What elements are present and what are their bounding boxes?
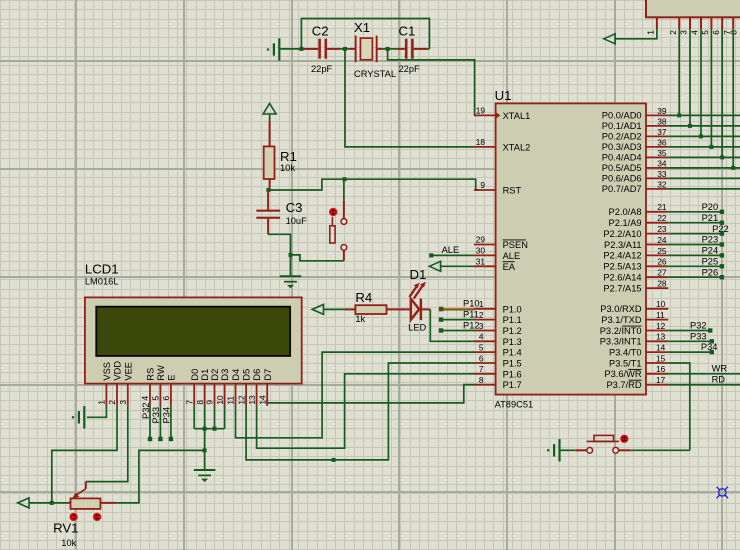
- svg-text:29: 29: [476, 235, 486, 245]
- svg-text:6: 6: [161, 396, 171, 401]
- svg-text:P11: P11: [463, 309, 479, 319]
- svg-text:P1.7: P1.7: [503, 380, 522, 390]
- svg-text:P1.5: P1.5: [503, 359, 522, 369]
- svg-text:P0.7/AD7: P0.7/AD7: [602, 184, 642, 194]
- svg-text:P10: P10: [463, 299, 480, 309]
- svg-text:28: 28: [657, 279, 667, 289]
- svg-text:P2.3/A11: P2.3/A11: [604, 240, 642, 250]
- svg-text:P0.5/AD5: P0.5/AD5: [602, 163, 642, 173]
- svg-text:P0.0/AD0: P0.0/AD0: [602, 111, 642, 121]
- svg-text:8: 8: [195, 400, 205, 405]
- svg-text:P1.6: P1.6: [503, 369, 522, 379]
- svg-text:P3.5/T1: P3.5/T1: [609, 358, 642, 368]
- svg-text:U1: U1: [495, 88, 512, 103]
- svg-text:R1: R1: [280, 149, 297, 164]
- svg-text:ALE: ALE: [503, 251, 521, 261]
- svg-text:10k: 10k: [280, 163, 295, 173]
- svg-text:P24: P24: [702, 246, 719, 256]
- svg-text:1: 1: [479, 299, 484, 309]
- svg-text:16: 16: [656, 364, 666, 374]
- svg-text:P1.3: P1.3: [503, 337, 522, 347]
- svg-text:14: 14: [656, 343, 666, 353]
- svg-text:6: 6: [479, 353, 484, 363]
- svg-text:32: 32: [657, 179, 667, 189]
- svg-text:R4: R4: [355, 290, 372, 305]
- svg-text:D1: D1: [200, 369, 210, 381]
- svg-text:RD: RD: [712, 374, 726, 384]
- svg-text:CRYSTAL: CRYSTAL: [354, 69, 396, 79]
- svg-text:P3.6/WR: P3.6/WR: [604, 369, 641, 379]
- svg-text:P22: P22: [712, 224, 729, 234]
- svg-text:27: 27: [657, 268, 667, 278]
- svg-text:LCD1: LCD1: [85, 261, 119, 276]
- svg-text:36: 36: [657, 137, 667, 147]
- svg-text:LM016L: LM016L: [85, 276, 119, 286]
- svg-text:22: 22: [657, 213, 667, 223]
- svg-text:22pF: 22pF: [399, 64, 421, 74]
- svg-text:5: 5: [151, 396, 161, 401]
- svg-text:P2.0/A8: P2.0/A8: [609, 207, 642, 217]
- svg-text:RV1: RV1: [53, 520, 78, 535]
- svg-text:18: 18: [476, 137, 486, 147]
- svg-text:11: 11: [656, 310, 665, 320]
- svg-text:10k: 10k: [61, 538, 76, 548]
- svg-text:24: 24: [657, 235, 667, 245]
- svg-text:LED: LED: [408, 322, 426, 332]
- svg-text:9: 9: [480, 180, 485, 190]
- svg-text:2: 2: [107, 400, 117, 405]
- svg-text:D6: D6: [252, 369, 262, 381]
- svg-text:35: 35: [657, 148, 667, 158]
- svg-text:10: 10: [656, 299, 666, 309]
- svg-text:P2.4/A12: P2.4/A12: [603, 251, 641, 261]
- svg-text:2: 2: [479, 310, 484, 320]
- svg-text:10uF: 10uF: [286, 216, 308, 226]
- svg-text:P3.0/RXD: P3.0/RXD: [600, 304, 642, 314]
- svg-text:VDD: VDD: [113, 361, 123, 381]
- svg-text:1k: 1k: [355, 314, 365, 324]
- svg-text:9: 9: [205, 400, 215, 405]
- svg-text:23: 23: [657, 224, 667, 234]
- svg-text:D1: D1: [410, 267, 427, 282]
- svg-text:38: 38: [657, 116, 667, 126]
- svg-text:12: 12: [656, 321, 666, 331]
- svg-text:4: 4: [690, 30, 700, 35]
- svg-text:14: 14: [257, 395, 267, 405]
- svg-text:P0.3/AD3: P0.3/AD3: [602, 142, 642, 152]
- svg-text:15: 15: [656, 353, 666, 363]
- svg-text:ALE: ALE: [442, 245, 460, 255]
- svg-text:P2.7/A15: P2.7/A15: [603, 283, 641, 293]
- svg-text:12: 12: [236, 395, 246, 405]
- svg-text:D2: D2: [210, 369, 220, 381]
- svg-text:EA: EA: [503, 262, 516, 272]
- svg-text:33: 33: [657, 169, 667, 179]
- svg-text:P1.2: P1.2: [503, 326, 522, 336]
- svg-text:X1: X1: [354, 20, 370, 35]
- svg-text:C3: C3: [286, 200, 303, 215]
- svg-text:RST: RST: [503, 186, 522, 196]
- svg-text:39: 39: [657, 106, 667, 116]
- svg-text:13: 13: [656, 332, 666, 342]
- svg-text:P26: P26: [702, 267, 719, 277]
- svg-text:P1.0: P1.0: [503, 304, 522, 314]
- svg-text:D4: D4: [231, 369, 241, 381]
- svg-text:P21: P21: [702, 213, 719, 223]
- svg-text:P2.1/A9: P2.1/A9: [609, 218, 642, 228]
- svg-text:21: 21: [657, 202, 667, 212]
- svg-text:RW: RW: [156, 365, 166, 381]
- svg-text:D7: D7: [263, 369, 273, 381]
- svg-text:25: 25: [657, 246, 667, 256]
- svg-text:P2.5/A13: P2.5/A13: [603, 262, 641, 272]
- svg-text:P33: P33: [690, 331, 707, 341]
- svg-text:P0.2/AD2: P0.2/AD2: [602, 132, 642, 142]
- svg-text:P25: P25: [702, 257, 719, 267]
- svg-text:D3: D3: [220, 369, 230, 381]
- svg-text:26: 26: [657, 257, 667, 267]
- svg-text:C1: C1: [399, 23, 416, 38]
- svg-text:P20: P20: [702, 202, 719, 212]
- svg-text:P3.3/INT1: P3.3/INT1: [600, 337, 642, 347]
- svg-text:3: 3: [118, 400, 128, 405]
- svg-text:P0.6/AD6: P0.6/AD6: [602, 174, 642, 184]
- svg-text:P3.2/INT0: P3.2/INT0: [600, 326, 642, 336]
- svg-text:3: 3: [479, 321, 484, 331]
- svg-text:4: 4: [479, 332, 484, 342]
- svg-text:19: 19: [476, 106, 486, 116]
- svg-text:P1.1: P1.1: [503, 315, 522, 325]
- svg-text:8: 8: [479, 375, 484, 385]
- svg-text:7: 7: [479, 364, 484, 374]
- svg-text:11: 11: [226, 396, 236, 405]
- svg-text:P3.4/T0: P3.4/T0: [609, 347, 642, 357]
- svg-text:6: 6: [711, 30, 721, 35]
- svg-text:5: 5: [479, 343, 484, 353]
- svg-text:P3.1/TXD: P3.1/TXD: [601, 315, 642, 325]
- svg-text:7: 7: [184, 400, 194, 405]
- svg-text:30: 30: [476, 246, 486, 256]
- svg-text:P1.4: P1.4: [503, 348, 522, 358]
- svg-text:P23: P23: [702, 235, 719, 245]
- svg-text:17: 17: [656, 375, 666, 385]
- svg-text:RS: RS: [146, 368, 156, 381]
- svg-text:P34: P34: [701, 342, 718, 352]
- svg-text:P2.2/A10: P2.2/A10: [603, 229, 641, 239]
- svg-text:P3.7/RD: P3.7/RD: [606, 380, 641, 390]
- svg-text:D5: D5: [242, 369, 252, 381]
- svg-text:AT89C51: AT89C51: [495, 400, 534, 410]
- svg-text:P12: P12: [463, 320, 480, 330]
- svg-text:1: 1: [97, 400, 107, 405]
- svg-text:WR: WR: [712, 364, 728, 374]
- svg-text:22pF: 22pF: [311, 64, 333, 74]
- svg-text:D0: D0: [190, 369, 200, 381]
- svg-text:3: 3: [679, 30, 689, 35]
- svg-text:31: 31: [476, 257, 486, 267]
- svg-text:XTAL2: XTAL2: [503, 142, 531, 152]
- svg-text:PSEN: PSEN: [503, 240, 528, 250]
- svg-text:C2: C2: [312, 23, 329, 38]
- svg-text:E: E: [167, 374, 177, 380]
- svg-text:P0.4/AD4: P0.4/AD4: [602, 153, 642, 163]
- svg-text:4: 4: [140, 396, 150, 401]
- svg-text:13: 13: [247, 395, 257, 405]
- svg-text:1: 1: [646, 30, 656, 35]
- svg-text:XTAL1: XTAL1: [503, 111, 531, 121]
- svg-text:P0.1/AD1: P0.1/AD1: [602, 121, 642, 131]
- svg-text:37: 37: [657, 127, 667, 137]
- svg-text:P32: P32: [690, 321, 707, 331]
- svg-text:VSS: VSS: [102, 362, 112, 381]
- svg-text:2: 2: [668, 30, 678, 35]
- svg-text:VEE: VEE: [123, 362, 133, 381]
- svg-text:34: 34: [657, 158, 667, 168]
- svg-text:P2.6/A14: P2.6/A14: [603, 273, 641, 283]
- svg-text:10: 10: [215, 395, 225, 405]
